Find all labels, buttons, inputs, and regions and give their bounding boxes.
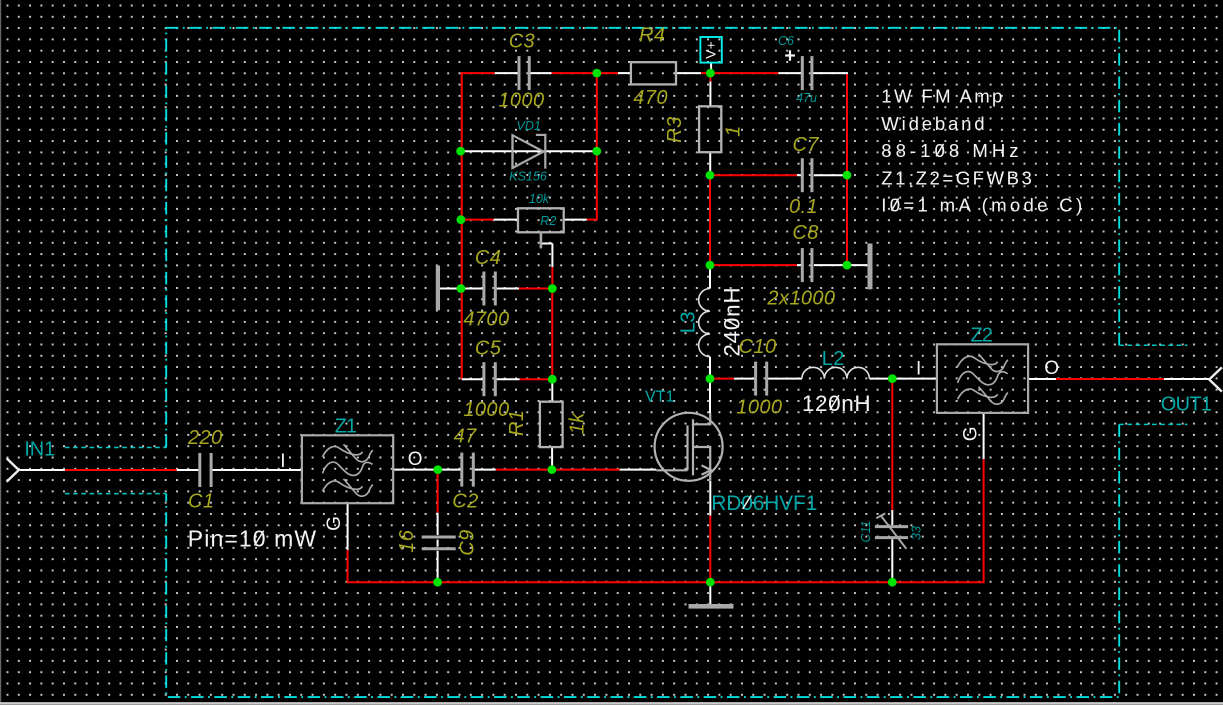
svg-text:33: 33: [910, 526, 924, 540]
svg-text:R3: R3: [664, 117, 686, 143]
svg-text:Z1: Z1: [335, 416, 357, 438]
svg-text:Z2: Z2: [971, 324, 993, 346]
svg-text:4700: 4700: [463, 309, 509, 331]
svg-text:1: 1: [722, 125, 744, 137]
svg-text:C7: C7: [793, 134, 820, 156]
svg-text:R4: R4: [639, 25, 665, 47]
svg-text:Z1,Z2=GFWB3: Z1,Z2=GFWB3: [881, 167, 1034, 188]
svg-text:1000: 1000: [498, 89, 544, 111]
svg-text:C5: C5: [475, 338, 502, 360]
svg-text:220: 220: [187, 427, 223, 449]
svg-text:120nH: 120nH: [802, 391, 871, 416]
svg-text:G: G: [324, 516, 345, 531]
svg-text:I: I: [280, 451, 285, 472]
svg-text:C1: C1: [188, 491, 214, 513]
svg-text:1k: 1k: [567, 412, 589, 435]
svg-text:R2: R2: [540, 214, 556, 228]
svg-text:I: I: [916, 358, 921, 379]
svg-text:C11: C11: [859, 520, 873, 542]
svg-text:2x1000: 2x1000: [766, 288, 835, 310]
svg-text:OUT1: OUT1: [1161, 394, 1212, 416]
svg-text:Pin=10 mW: Pin=10 mW: [188, 525, 317, 551]
svg-text:C2: C2: [452, 490, 478, 512]
svg-text:1W FM Amp: 1W FM Amp: [881, 86, 1004, 107]
svg-text:RD06HVF1: RD06HVF1: [711, 492, 817, 515]
svg-text:IN1: IN1: [24, 438, 55, 460]
svg-text:10k: 10k: [529, 192, 550, 206]
svg-text:L2: L2: [822, 348, 845, 370]
svg-text:1000: 1000: [463, 399, 509, 421]
svg-text:240nH: 240nH: [720, 287, 745, 357]
svg-text:0.1: 0.1: [789, 196, 818, 218]
svg-text:VT1: VT1: [645, 388, 674, 405]
svg-text:C8: C8: [792, 222, 818, 244]
svg-text:88-108 MHz: 88-108 MHz: [881, 140, 1022, 161]
svg-text:O: O: [408, 449, 423, 470]
svg-text:16: 16: [396, 529, 418, 553]
svg-text:L3: L3: [677, 312, 699, 334]
svg-text:R1: R1: [506, 410, 528, 436]
svg-text:C6: C6: [778, 34, 794, 48]
svg-text:C9: C9: [457, 529, 479, 555]
svg-text:O: O: [1044, 358, 1059, 379]
svg-text:Wideband: Wideband: [881, 113, 987, 134]
svg-text:V+: V+: [704, 41, 719, 59]
svg-text:VD1: VD1: [517, 119, 541, 133]
svg-text:C4: C4: [475, 247, 501, 269]
svg-text:47: 47: [454, 425, 478, 447]
svg-text:47u: 47u: [796, 91, 817, 105]
svg-text:G: G: [961, 426, 982, 441]
svg-text:KS156: KS156: [509, 169, 547, 183]
svg-text:C3: C3: [509, 30, 535, 52]
svg-text:1000: 1000: [736, 397, 782, 419]
svg-text:470: 470: [633, 87, 668, 109]
svg-text:I0=1 mA (mode C): I0=1 mA (mode C): [881, 195, 1085, 216]
